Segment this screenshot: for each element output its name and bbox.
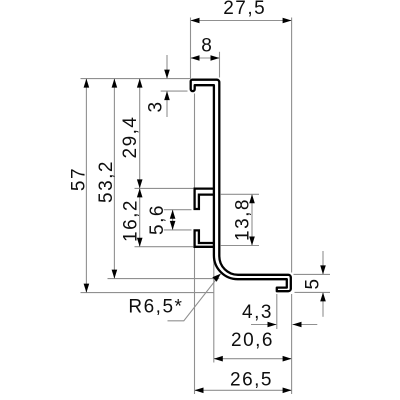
extension line, left edge x=190.5 for dims 27,5 / 8 [190, 18, 192, 80]
extension line, profile bottom for dim 57 [81, 292, 214, 294]
dimension line 3 lower tail [166, 91, 168, 117]
arrowheads dim 53,2 [112, 79, 118, 88]
arrowheads dim 57 [84, 79, 90, 88]
svg-text:26,5: 26,5 [230, 370, 273, 391]
dimension line 29,4 [139, 79, 141, 189]
svg-text:27,5: 27,5 [223, 0, 266, 19]
extension line, hook lip tip x=276.8 for dim 4,3 [276, 294, 278, 329]
dimension line 4,3 right tail [293, 324, 318, 326]
screw channel, bottom half [195, 230, 214, 246]
dimension line 4,3 left tail [251, 324, 277, 326]
extension line, flange underside for dim 53,2 [108, 278, 220, 280]
extension line, channel bottom for dim 16,2 [135, 246, 194, 248]
svg-text:4,3: 4,3 [242, 302, 273, 323]
profile outline (sheet cross-section) [191, 80, 291, 292]
dimension line 20,6 [214, 358, 292, 360]
svg-text:29,4: 29,4 [120, 116, 141, 159]
dimension line 27,5 [191, 20, 292, 22]
arrowhead leader R6,5* [212, 274, 220, 282]
extension line, mouth bottom for dim 5,6 [164, 229, 192, 231]
screw channel, top half [195, 189, 214, 209]
svg-text:57: 57 [69, 167, 90, 191]
extension line, inner top for dim 13,8 [221, 193, 259, 195]
dimension line 13,8 [251, 194, 253, 245]
dimension line 3 upper tail [166, 55, 168, 79]
svg-text:8: 8 [201, 36, 213, 57]
arrowheads dim 29,4 [137, 79, 143, 88]
svg-text:53,2: 53,2 [96, 160, 117, 203]
svg-text:13,8: 13,8 [232, 198, 253, 241]
dimension line 8 [191, 57, 220, 59]
extension line, wall inner x=213.8 for dim 20,6 [213, 256, 215, 363]
dimension line 5,6 [172, 210, 174, 230]
dimension line 53,2 [113, 79, 115, 279]
extension line, wall outer x=219.5 for dim 8 [219, 52, 221, 78]
svg-text:5,6: 5,6 [147, 204, 168, 235]
svg-text:16,2: 16,2 [120, 199, 141, 242]
arrowheads dim 4,3 (outside) [268, 322, 277, 328]
arrowheads dim 5 (outside) [320, 265, 326, 274]
svg-text:20,6: 20,6 [231, 330, 274, 351]
dimension line 16,2 [139, 188, 141, 246]
arrowheads dim 3 (outside) [164, 70, 170, 79]
dimension line 26,5 [195, 389, 292, 391]
dimension line 5 upper tail [322, 251, 324, 274]
extension line, mouth top for dim 5,6 [164, 209, 192, 211]
extension line, channel top for dims 29,4 / 16,2 [135, 187, 194, 189]
arrowheads dim 5,6 [170, 210, 176, 219]
arrowheads dim 16,2 [137, 188, 143, 197]
svg-text:R6,5*: R6,5* [128, 297, 183, 318]
extension line, right edge x=291.6 lower for dims 4,3 / 20,6 / 26,5 [291, 294, 293, 394]
extension line, lip inner x=194.5 lower for dim 26,5 [194, 248, 196, 394]
svg-text:3: 3 [146, 100, 167, 112]
dimension line 5 lower tail [322, 292, 324, 316]
extension line, top datum y=78.6 [81, 78, 191, 80]
arrowheads dim 8 [191, 55, 200, 61]
dimension line 57 [85, 79, 87, 293]
extension line, hook bottom for dim 5 [295, 291, 331, 293]
extension line, right edge x=291.6 upper for dim 27,5 [291, 18, 293, 273]
extension line, lip bottom for dim 3 [161, 90, 188, 92]
leader line R6,5* [168, 274, 221, 321]
extension line, flange top for dim 5 [294, 273, 331, 275]
arrowheads dim 20,6 [214, 356, 223, 362]
extension line, inner bottom for dim 13,8 [221, 245, 259, 247]
extension line, lip inner x=194.5 upper for dim 26,5 [194, 94, 196, 188]
arrowheads dim 27,5 [191, 18, 200, 24]
arrowheads dim 13,8 [249, 194, 255, 203]
arrowheads dim 26,5 [195, 388, 204, 394]
svg-text:5: 5 [303, 277, 324, 289]
